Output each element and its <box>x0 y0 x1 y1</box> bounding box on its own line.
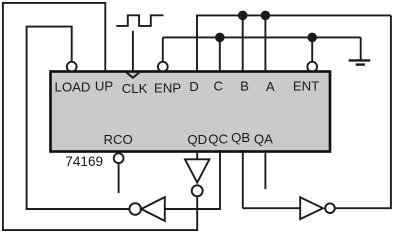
svg-text:C: C <box>214 79 224 94</box>
inverter (right, driven by QB) <box>300 197 323 219</box>
wire D vertical <box>196 15 198 71</box>
wire B vertical <box>242 15 244 71</box>
wire right-inverter output horizontal <box>335 207 392 209</box>
junction dot at A on top bus <box>261 11 271 21</box>
wire bottom horizontal (UP net) <box>2 229 198 231</box>
IC U1 74169 body <box>51 72 331 152</box>
junction dot at ENT on bus2 <box>307 33 317 43</box>
IC U1 border (overdraw) <box>51 72 331 152</box>
inverter bubble (left inverter output) <box>129 203 141 215</box>
inverter bubble (down inverter output) <box>192 185 203 196</box>
svg-text:QB: QB <box>231 130 250 145</box>
ground symbol <box>349 60 371 64</box>
svg-text:QC: QC <box>208 132 228 147</box>
wire C vertical <box>219 37 221 71</box>
svg-text:A: A <box>266 79 275 94</box>
svg-text:D: D <box>189 79 199 94</box>
wire ENP vertical <box>162 37 164 62</box>
bubble RCO (active-low output) <box>114 153 124 163</box>
svg-text:QA: QA <box>254 131 273 146</box>
wire UP pin vertical <box>104 3 106 72</box>
bubble ENT (active-low) <box>307 62 317 72</box>
wire QB vertical <box>242 150 244 208</box>
svg-text:B: B <box>240 78 249 93</box>
svg-text:RCO: RCO <box>103 132 132 147</box>
wire LOAD vertical <box>71 27 73 62</box>
svg-text:QD: QD <box>187 132 207 147</box>
wire RCO stub <box>118 163 120 193</box>
wire QD vertical <box>196 152 198 159</box>
inverter (left, driven by QC) <box>141 197 165 221</box>
wire inner top horizontal (LOAD net) <box>27 26 73 28</box>
wire left inner vertical (LOAD net) <box>26 26 28 209</box>
wire ENT vertical <box>311 37 313 62</box>
wire CLK vertical <box>132 31 134 72</box>
wire right-inverter input <box>243 207 300 209</box>
wire QA stub <box>264 152 266 189</box>
svg-text:LOAD: LOAD <box>55 79 91 94</box>
wire top bus horizontal (D/B/A net) <box>196 14 391 16</box>
clock waveform symbol <box>116 15 163 26</box>
wire bottom to inverter output (LOAD net) <box>26 208 130 210</box>
wire left outer vertical (UP net) <box>2 2 4 230</box>
svg-text:74169: 74169 <box>65 154 103 169</box>
inverter (down, driven by QD) <box>185 159 209 182</box>
wire bus2 horizontal (ENP/C/ENT/ground net) <box>163 36 361 38</box>
wire ground drop <box>360 37 362 60</box>
bubble LOAD (active-low) <box>67 62 77 72</box>
wire QD-inverter output drop <box>196 196 198 231</box>
junction dot at B on top bus <box>238 11 248 21</box>
wire A vertical <box>264 15 266 71</box>
wire left-inverter input <box>165 208 220 210</box>
wire right vertical (inverter output to top bus) <box>390 15 392 208</box>
svg-text:UP: UP <box>95 79 114 94</box>
inverter bubble (right inverter output) <box>325 203 335 213</box>
bubble ENP (active-low) <box>158 62 168 72</box>
svg-text:ENP: ENP <box>154 81 181 96</box>
clock edge-trigger indicator <box>127 73 140 78</box>
junction dot at C on bus2 <box>215 33 225 43</box>
wire QC vertical <box>219 150 221 210</box>
svg-text:CLK: CLK <box>122 81 148 96</box>
svg-text:ENT: ENT <box>293 78 319 93</box>
wire top-left horizontal (UP net) <box>3 2 106 4</box>
